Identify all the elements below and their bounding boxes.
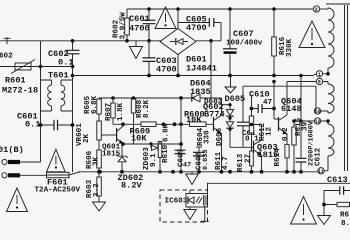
svg-text:100/400v: 100/400v — [226, 40, 263, 48]
svg-text:1.8K: 1.8K — [117, 102, 125, 121]
ground arrow x231 — [225, 76, 236, 94]
transformer top line — [326, 3, 350, 5]
label C612 2200P/1600V vertical — [308, 120, 323, 166]
svg-text:R607: R607 — [105, 102, 113, 121]
node x211 y40 — [209, 39, 213, 43]
connector pin top — [2, 159, 41, 164]
svg-text:10K: 10K — [186, 115, 202, 125]
node R616 bottom — [272, 74, 276, 78]
ground arrow rail x192 — [186, 172, 198, 185]
svg-text:IC603: IC603 — [165, 198, 188, 206]
svg-text:4700: 4700 — [129, 24, 150, 34]
wire AC line2 y66.5 — [0, 66, 73, 68]
wire x40 to connector — [40, 125, 42, 162]
svg-text:10K: 10K — [131, 134, 147, 144]
node R615 top — [292, 119, 296, 123]
ground triangle R603 — [93, 202, 106, 211]
wire AC line3 y75.5 — [73, 75, 314, 77]
node C602 top — [71, 39, 75, 43]
svg-text:4.7: 4.7 — [222, 156, 230, 170]
wire x72 down to rail — [72, 125, 74, 172]
svg-text:8.2V: 8.2V — [121, 181, 142, 191]
wire bridge right y40 — [196, 40, 221, 42]
resistor R602 — [125, 9, 130, 41]
wire C610 right to Q604 base and up to pin9 wire — [272, 80, 276, 84]
pin 11 — [318, 156, 328, 175]
zener stack D602 — [222, 103, 234, 147]
capacitor C607 — [223, 9, 237, 76]
transformer core — [345, 5, 348, 171]
node winding3 top — [326, 119, 330, 123]
IC603 dashed box — [160, 190, 208, 222]
svg-text:1815: 1815 — [102, 151, 121, 159]
warning triangle fuse — [47, 149, 66, 172]
wire T601 left down — [40, 80, 42, 125]
wire feedback line y183 — [207, 182, 350, 184]
capacitor C612 — [296, 76, 307, 172]
node R606 bottom — [97, 170, 101, 174]
label R616 330K — [279, 36, 294, 57]
label R602 3.9/5W — [113, 12, 128, 40]
label R604 330 vertical — [197, 127, 212, 146]
diode D605 — [242, 86, 244, 115]
svg-text:9: 9 — [318, 80, 321, 86]
svg-text:R6: R6 — [340, 212, 350, 220]
node bridge top rail — [176, 7, 180, 11]
resistor R608 — [131, 98, 136, 144]
wire Q602 emitter down — [221, 133, 223, 172]
label C609 47 vertical — [178, 148, 192, 169]
opto LED — [188, 190, 194, 204]
svg-text:4700: 4700 — [156, 65, 177, 75]
svg-text:9.1: 9.1 — [150, 153, 158, 167]
node C601 right — [71, 123, 75, 127]
svg-text:6148: 6148 — [281, 104, 302, 114]
resistor R615 — [292, 121, 296, 172]
svg-text:47: 47 — [263, 99, 273, 107]
capacitor C613 — [324, 186, 350, 194]
node ZD602 bottom — [120, 170, 124, 174]
svg-text:01(B): 01(B) — [0, 145, 24, 155]
wire Q602 collector up — [221, 98, 223, 115]
capacitor C605 — [178, 18, 221, 27]
node x324 y204 — [322, 203, 326, 207]
node R616 top — [272, 7, 276, 11]
opto solid box — [186, 194, 208, 208]
node C610 right — [272, 107, 276, 111]
wire y147 zener cluster to Q603 — [230, 146, 254, 148]
node C607 bottom — [228, 74, 232, 78]
svg-text:2: 2 — [315, 7, 318, 13]
svg-text:6.8K: 6.8K — [163, 123, 171, 142]
capacitor C601 — [41, 120, 73, 131]
resistor R607 — [111, 98, 115, 124]
node Q602 emitter rail — [220, 170, 224, 174]
node x72 y75 — [71, 74, 75, 78]
wire Q604 collector to pin9 — [286, 82, 288, 116]
wire C605 right leg — [220, 23, 222, 41]
svg-text:D602: D602 — [204, 99, 223, 107]
wire bridge bottom to y75 — [177, 55, 179, 76]
label R607 1.8K — [105, 102, 125, 121]
wire C613 left leg — [323, 191, 325, 216]
svg-text:1J4841: 1J4841 — [186, 64, 217, 74]
node Q601 emitter — [121, 142, 125, 146]
svg-text:R610: R610 — [162, 144, 170, 163]
pin 2 — [313, 6, 328, 13]
node ZD603 top — [149, 142, 152, 145]
svg-text:27: 27 — [245, 153, 253, 163]
diode D604 — [192, 94, 222, 102]
svg-text:2K: 2K — [83, 133, 91, 143]
label R605 6.8K — [84, 95, 99, 114]
ground triangle bottom right — [318, 216, 331, 225]
svg-text:C607: C607 — [233, 29, 254, 39]
rail dots — [98, 170, 232, 174]
wire AC line1 y40 — [0, 40, 162, 42]
svg-text:330K: 330K — [286, 38, 294, 57]
transistor Q601 — [117, 126, 124, 143]
svg-text:6.8K: 6.8K — [91, 95, 99, 114]
node C610 left — [250, 107, 254, 111]
resistor R609 — [141, 122, 156, 127]
bridge rectifier D601 — [160, 29, 196, 55]
svg-text:C601: C601 — [129, 14, 150, 24]
resistor R613 — [250, 147, 254, 172]
svg-text:602: 602 — [0, 53, 13, 61]
node R607 top — [111, 96, 115, 100]
node C608 bottom — [197, 170, 201, 174]
capacitor C603 — [143, 41, 156, 76]
resistor R603 — [97, 172, 102, 202]
node R613 bottom — [250, 170, 254, 174]
label R603 2.2 — [86, 179, 101, 198]
warning triangle bottom-left — [7, 188, 28, 212]
label VR601 2K — [76, 123, 91, 146]
transformer primary winding — [328, 8, 334, 68]
pin 9 — [287, 78, 328, 85]
wire x211 down to D604 — [210, 41, 212, 98]
node ZD603 bottom — [158, 170, 162, 174]
svg-text:0.1: 0.1 — [25, 120, 40, 130]
connector pin bottom — [2, 173, 47, 178]
node bridge bottom — [176, 74, 180, 78]
capacitor C609 — [175, 150, 186, 153]
node C612 bottom — [299, 170, 303, 174]
ground tick photo emitter — [201, 206, 209, 222]
resistor R617 — [324, 202, 350, 206]
node y124 x174 — [173, 122, 177, 126]
node C612 top — [299, 119, 303, 123]
svg-text:T601: T601 — [48, 71, 69, 81]
label ZD603 9.1 vertical — [143, 147, 158, 170]
svg-text:1835: 1835 — [190, 87, 211, 97]
rail base drive y124 — [113, 123, 214, 125]
wire Q603 collector up — [252, 125, 262, 141]
node C604 top — [147, 7, 151, 11]
fuse symbol top-left — [4, 37, 11, 44]
node winding1 bottom — [326, 72, 330, 76]
label R612 4.7K vertical — [215, 151, 230, 170]
opto phototransistor — [204, 195, 206, 206]
svg-text:10: 10 — [315, 109, 321, 115]
svg-text:2.2: 2.2 — [93, 183, 101, 197]
svg-text:12: 12 — [266, 126, 274, 136]
node C601 left — [39, 123, 43, 127]
node x181 y144 — [179, 142, 183, 146]
resistor R610b — [158, 142, 162, 172]
wire Q603 emitter down — [261, 155, 263, 172]
wire main bottom rail y171.5 — [78, 171, 318, 173]
resistor R605 — [97, 98, 102, 121]
resistor R616 — [272, 9, 277, 76]
wire x181 vertical — [180, 98, 182, 172]
svg-text:M272-18: M272-18 — [2, 86, 38, 96]
svg-text:R601: R601 — [5, 76, 26, 86]
node R615 bottom — [292, 170, 296, 174]
capacitor C604 — [143, 9, 156, 41]
label R608 8.2K — [136, 99, 151, 118]
potentiometer VR601 — [97, 121, 102, 150]
label R606 3K — [86, 150, 101, 169]
wire VR601 wiper to Q601 base — [101, 134, 116, 136]
node C604 bottom — [147, 39, 151, 43]
label R615 39 vertical — [295, 117, 310, 136]
node x173 rail — [171, 170, 175, 174]
node C603 bottom — [147, 74, 151, 78]
zener ZD603 — [151, 144, 158, 151]
wire T601 right down — [72, 80, 74, 125]
node y124 x163 — [162, 122, 166, 126]
label R611 6.8K vertical — [162, 123, 171, 163]
svg-text:4700: 4700 — [186, 23, 207, 33]
svg-text:8.2K: 8.2K — [143, 99, 151, 118]
svg-text:C610: C610 — [249, 90, 270, 100]
resistor R612 — [249, 116, 253, 133]
zener ZD602 — [117, 144, 128, 172]
capacitor C602 — [66, 41, 80, 80]
transistor Q602 — [214, 115, 222, 134]
capacitor C610 — [252, 104, 275, 113]
node R608 top — [132, 96, 136, 100]
transformer winding 3 — [328, 124, 334, 156]
node x181 rail — [179, 170, 183, 174]
label R613 27 vertical — [237, 153, 253, 172]
node R602 bottom — [125, 39, 129, 43]
label R612 12 vertical — [259, 122, 274, 141]
svg-text:R614: R614 — [274, 148, 282, 167]
transistor Q603 — [254, 140, 262, 155]
svg-text:C613: C613 — [327, 175, 348, 185]
opto arrows — [196, 197, 202, 204]
node C607 top — [228, 7, 232, 11]
warning triangle bridge — [155, 7, 176, 29]
ground arrow chassis x136 — [130, 41, 143, 59]
wire C610 left leg — [251, 95, 253, 147]
capacitor C611 — [237, 115, 249, 147]
svg-text:D605: D605 — [225, 94, 246, 104]
svg-text:3.9/5W: 3.9/5W — [120, 12, 128, 40]
rail y98 — [99, 97, 195, 99]
svg-text:330: 330 — [204, 130, 212, 144]
wire emitter y144 — [123, 143, 181, 145]
pin 12 — [294, 118, 328, 125]
node Q603 emitter rail — [260, 170, 264, 174]
svg-text:T2A-AC250V: T2A-AC250V — [35, 187, 81, 195]
fuse F601 — [47, 172, 81, 178]
wire top rail y9 — [127, 8, 313, 10]
transformer T601 — [41, 80, 73, 111]
wire opto output up to feedback line — [207, 183, 209, 193]
svg-text:0.033: 0.033 — [202, 150, 210, 170]
svg-text:D606: D606 — [216, 127, 224, 146]
pin 10 — [243, 86, 328, 115]
warning triangle bottom-right — [291, 197, 317, 225]
node line1/x40 — [39, 65, 43, 69]
ground arrow LED — [184, 207, 196, 220]
wire vertical x40.5 — [40, 41, 42, 80]
capacitor C608 — [193, 147, 205, 172]
node C602 bottom — [71, 65, 75, 69]
label C608 0.033 vertical — [196, 150, 211, 170]
node Q604 emitter rail — [285, 170, 289, 174]
resistor R614 — [285, 144, 289, 158]
node D604 left — [179, 96, 183, 100]
svg-text:3K: 3K — [93, 156, 101, 166]
svg-text:8.: 8. — [341, 220, 350, 226]
svg-text:1: 1 — [318, 72, 321, 78]
transistor Q604 — [279, 115, 288, 134]
warning triangle right-top — [299, 21, 325, 48]
node Q601 collector — [121, 122, 125, 126]
node y124 x181 — [179, 122, 183, 126]
svg-text:11: 11 — [318, 169, 324, 175]
node Q603 collector link — [250, 123, 254, 127]
wire Q604 emitter down — [286, 134, 288, 172]
pin 1 — [313, 68, 328, 78]
transformer winding 2 — [328, 84, 334, 113]
resistor R606 — [97, 150, 102, 172]
wire bridge top to rail — [177, 9, 179, 29]
resistor R610 — [190, 122, 207, 127]
svg-text:C612: C612 — [315, 147, 323, 166]
svg-text:47: 47 — [183, 162, 191, 170]
varistor R601 — [11, 60, 35, 74]
